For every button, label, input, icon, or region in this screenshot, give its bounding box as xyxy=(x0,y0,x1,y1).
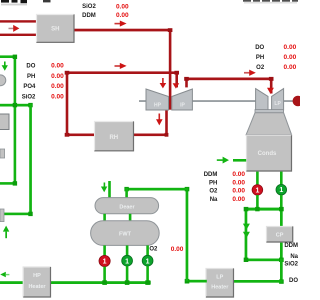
svg-text:RH: RH xyxy=(109,135,118,141)
arrow: flow into SH xyxy=(9,25,20,32)
wire: vertical into CP xyxy=(280,208,283,227)
wire: condensate manifold xyxy=(245,208,283,211)
wire: green horizontal y105 xyxy=(0,104,32,107)
node: corner hot reheat xyxy=(65,71,70,75)
wire: green horizontal y214 xyxy=(1,213,32,216)
svg-text:1: 1 xyxy=(255,187,259,194)
arrow: makeup flow right xyxy=(217,157,229,164)
arrow: steam down into LP xyxy=(267,88,274,94)
svg-text:0.00: 0.00 xyxy=(284,54,297,61)
svg-text:Heater: Heater xyxy=(28,284,46,290)
wire: vertical down to LP heater level xyxy=(280,259,283,283)
svg-text:Conds: Conds xyxy=(258,151,277,157)
node: header junction pump3 xyxy=(145,280,150,285)
arrow: main steam flow right xyxy=(115,21,127,27)
node: corner riser bottom xyxy=(65,133,70,137)
svg-text:HP: HP xyxy=(154,103,162,109)
wire: FWT outlet 2 xyxy=(126,245,129,255)
svg-text:LP: LP xyxy=(216,275,223,281)
node: corner x15/y183 xyxy=(13,181,17,185)
feedwater tank FWT xyxy=(91,221,160,246)
node: corner crossover left xyxy=(184,77,189,81)
node: manifold right junction xyxy=(279,207,284,211)
node: manifold junctions xyxy=(255,207,259,211)
svg-text:0.00: 0.00 xyxy=(232,171,245,178)
wire: manifold left drop xyxy=(245,208,248,262)
svg-text:0.00: 0.00 xyxy=(171,246,184,253)
svg-text:0.00: 0.00 xyxy=(232,180,245,187)
wire: condenser makeup line xyxy=(233,159,246,162)
svg-text:SiO2: SiO2 xyxy=(22,94,36,100)
LP turbine base xyxy=(255,110,284,113)
node: corner crossover right xyxy=(269,77,274,81)
pump (cropped) left edge xyxy=(0,75,6,86)
svg-text:O2: O2 xyxy=(209,189,218,195)
svg-text:O2: O2 xyxy=(256,65,265,71)
wire: condenser outlet left xyxy=(256,172,259,185)
node: corner manifold left xyxy=(244,207,249,211)
wire: pump 1 discharge xyxy=(103,267,106,282)
arrow: flow down into deaerator xyxy=(101,183,107,193)
arrow: hot reheat flow right xyxy=(115,63,127,69)
arrow: crossover flow right xyxy=(244,70,256,76)
node: corner deaerator inlet xyxy=(124,187,128,191)
wire: IP inlet drop xyxy=(175,71,178,87)
node: corner x187/y189 xyxy=(185,187,190,191)
LP heater box xyxy=(206,268,235,298)
svg-text:0.00: 0.00 xyxy=(232,196,245,203)
shaft LP to generator xyxy=(284,100,294,102)
svg-text:PH: PH xyxy=(209,180,217,186)
wire: FWT outlet 1 xyxy=(103,245,106,255)
svg-text:1: 1 xyxy=(103,259,107,266)
wire: feedwater line A into SH (upper) xyxy=(0,20,36,22)
condenser neck xyxy=(246,113,292,135)
generator xyxy=(293,96,304,107)
svg-text:SH: SH xyxy=(51,27,59,33)
wire: LP heater outlet left xyxy=(186,280,207,283)
svg-text:DO: DO xyxy=(26,64,35,70)
svg-text:0.00: 0.00 xyxy=(232,188,245,195)
svg-text:1: 1 xyxy=(279,187,283,194)
wire: CP outlet down xyxy=(280,243,283,261)
wire: left vertical green riser x15 xyxy=(14,55,17,184)
svg-text:0.00: 0.00 xyxy=(51,63,64,70)
svg-text:0.00: 0.00 xyxy=(116,3,129,10)
turbine IP xyxy=(172,89,193,110)
wire: deaerator inlet drop xyxy=(125,188,128,198)
svg-text:DO: DO xyxy=(255,45,264,51)
node: corner top-left xyxy=(13,55,17,59)
svg-text:0.00: 0.00 xyxy=(51,73,64,80)
svg-text:SiO2: SiO2 xyxy=(284,262,298,268)
svg-text:0.00: 0.00 xyxy=(116,12,129,19)
arrow: green up arrow bottom-left xyxy=(3,226,9,239)
arrow: condensate down 1 xyxy=(243,224,250,230)
HP heater box xyxy=(23,267,51,298)
svg-text:0.00: 0.00 xyxy=(284,64,297,71)
svg-text:PH: PH xyxy=(27,74,35,80)
wire: main feedwater header left of HP heater xyxy=(0,281,24,284)
reheater box RH xyxy=(94,121,134,152)
wire: deaerator to FWT stub 2 xyxy=(129,214,132,221)
turbine LP right half xyxy=(272,89,284,110)
node: corner IP inlet xyxy=(174,71,179,75)
wire: feedwater line B into SH (lower) xyxy=(0,34,36,36)
svg-text:O2: O2 xyxy=(149,247,158,253)
pump: feed pump 1 (red) xyxy=(99,255,110,266)
wire: into LP heater right side xyxy=(234,280,283,283)
svg-text:PO4: PO4 xyxy=(23,84,36,90)
arrow: condensate down 2 xyxy=(243,232,250,238)
shaft IP to LP xyxy=(192,100,255,102)
arrow: feedwater out to economizer (left) xyxy=(0,272,9,278)
svg-text:0.00: 0.00 xyxy=(284,44,297,51)
cropped title text top-right xyxy=(243,0,298,3)
wire: line to deaerator xyxy=(125,188,188,191)
wire: deaerator to FWT stub 1 xyxy=(103,214,106,221)
node: header junction pump1 xyxy=(102,280,107,285)
wire: main steam SH outlet xyxy=(75,29,172,32)
wire: hot reheat riser xyxy=(66,71,69,136)
wire: RH left to riser xyxy=(66,134,94,137)
wire: condenser outlet right xyxy=(280,172,283,185)
wire: pump1 outlet xyxy=(256,195,259,208)
node: corner y260 left xyxy=(244,258,249,262)
svg-text:HP: HP xyxy=(33,273,41,279)
svg-text:0.00: 0.00 xyxy=(51,83,64,90)
svg-text:IP: IP xyxy=(180,103,185,109)
svg-text:DDM: DDM xyxy=(204,172,218,178)
svg-text:1: 1 xyxy=(146,258,150,265)
shaft stub left of HP xyxy=(139,100,146,102)
equipment (cropped) left edge mid xyxy=(0,149,5,158)
node: junction y260 right xyxy=(279,258,284,262)
svg-text:FWT: FWT xyxy=(119,232,132,238)
heater (cropped) left edge xyxy=(0,114,9,131)
pump: feed pump 2 (green) xyxy=(122,255,133,266)
wire: pump2 outlet xyxy=(280,195,283,208)
polisher box CP xyxy=(266,226,293,243)
superheater box SH xyxy=(36,14,75,43)
svg-text:Na: Na xyxy=(290,254,298,260)
pump: condensate pump 1 (red) xyxy=(252,185,263,196)
arrow: HP exhaust down xyxy=(156,114,163,126)
wire: green horizontal y183 xyxy=(0,182,16,185)
arrow: steam down into HP xyxy=(160,78,167,88)
svg-text:PH: PH xyxy=(256,55,264,61)
turbine LP left half xyxy=(256,89,268,110)
wire: FWT outlet 3 xyxy=(146,245,149,255)
wire: main feedwater header right of HP heater xyxy=(51,281,151,284)
svg-text:Deaer: Deaer xyxy=(119,204,135,210)
svg-text:DDM: DDM xyxy=(284,243,298,249)
svg-text:Heater: Heater xyxy=(211,285,229,291)
cropped title text top-left xyxy=(1,0,51,5)
svg-text:Na: Na xyxy=(210,197,218,203)
svg-text:1: 1 xyxy=(125,258,129,265)
node: corner y281 right xyxy=(279,279,284,283)
arrow: green flow down top-left xyxy=(2,62,8,71)
wire: y260 horizontal link xyxy=(245,259,283,262)
wire: crossover drop into LP xyxy=(270,78,273,94)
wire: hot reheat horizontal to IP xyxy=(66,71,178,74)
pump: condensate pump 2 (green) xyxy=(276,184,287,195)
svg-text:0.00: 0.00 xyxy=(51,94,64,101)
wire: main steam vertical drop to turbines xyxy=(169,29,172,110)
node: corner x30/y105 xyxy=(28,103,32,107)
svg-text:CP: CP xyxy=(276,233,284,239)
node: corner x30/y214 xyxy=(28,212,32,216)
wire: left vertical green riser x30 xyxy=(29,104,32,216)
node: corner at HP exhaust xyxy=(165,133,169,137)
svg-text:DDM: DDM xyxy=(82,13,96,19)
node: header end xyxy=(147,281,150,285)
wire: HP exhaust to RH right side xyxy=(134,134,168,137)
svg-text:LP: LP xyxy=(274,101,281,107)
wire: long vertical riser x187 xyxy=(186,188,189,282)
equipment (cropped) left edge bottom xyxy=(0,209,4,222)
wire: pump 3 discharge xyxy=(146,266,149,282)
turbine HP xyxy=(146,89,169,110)
wire: deaerator vent stub xyxy=(108,181,111,198)
svg-text:SiO2: SiO2 xyxy=(82,4,96,10)
deaerator vessel Deaer xyxy=(95,198,159,214)
node: header junction pump2 xyxy=(125,280,130,285)
node: cross junction x15/y105 xyxy=(13,103,17,107)
wire: HP exhaust vertical xyxy=(165,108,168,136)
pump: feed pump 3 (green) xyxy=(142,255,153,266)
node: corner main steam xyxy=(168,28,173,32)
node: corner LP heater left xyxy=(185,279,190,284)
arrow: steam down into IP xyxy=(173,83,180,88)
condenser box Conds xyxy=(246,135,292,172)
wire: pump 2 discharge xyxy=(126,266,129,282)
wire: green supply top-left xyxy=(0,55,16,58)
wire: crossover horizontal IP to LP xyxy=(185,78,272,81)
wire: crossover stub from IP xyxy=(185,78,188,88)
svg-text:DO: DO xyxy=(289,278,298,284)
